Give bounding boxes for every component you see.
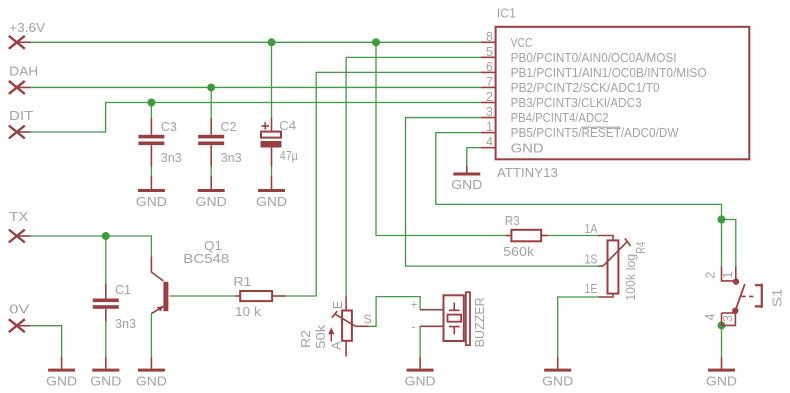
svg-text:GND: GND [256, 195, 287, 209]
svg-text:560k: 560k [503, 245, 535, 259]
svg-text:3n3: 3n3 [115, 317, 136, 331]
svg-text:S: S [364, 312, 372, 326]
svg-text:PB1/PCINT1/AIN1/OC0B/INT0/MISO: PB1/PCINT1/AIN1/OC0B/INT0/MISO [511, 66, 707, 80]
svg-text:GND: GND [405, 375, 436, 389]
svg-text:8: 8 [486, 30, 493, 44]
svg-text:ATTINY13: ATTINY13 [497, 166, 558, 180]
svg-text:PB3/PCINT3/CLKI/ADC3: PB3/PCINT3/CLKI/ADC3 [511, 96, 642, 110]
svg-text:GND: GND [451, 178, 482, 192]
svg-text:C2: C2 [221, 120, 237, 134]
svg-text:4: 4 [486, 135, 493, 149]
svg-text:3n3: 3n3 [221, 151, 242, 165]
svg-text:3: 3 [486, 105, 493, 119]
svg-text:GND: GND [90, 375, 121, 389]
svg-text:DAH: DAH [9, 65, 38, 79]
svg-text:BC548: BC548 [183, 252, 229, 266]
svg-text:3n3: 3n3 [161, 151, 182, 165]
svg-text:IC1: IC1 [497, 6, 516, 20]
svg-text:+: + [411, 298, 418, 312]
svg-text:6: 6 [486, 60, 493, 74]
svg-text:2: 2 [704, 272, 718, 279]
svg-text:0V: 0V [9, 303, 30, 317]
svg-text:GND: GND [706, 375, 737, 389]
svg-text:R4: R4 [634, 242, 648, 254]
svg-text:1: 1 [721, 272, 735, 279]
svg-text:A: A [330, 341, 344, 350]
svg-text:+3.6V: +3.6V [9, 21, 46, 35]
svg-text:C1: C1 [115, 283, 131, 297]
svg-text:VCC: VCC [511, 36, 533, 50]
svg-text:R3: R3 [505, 214, 520, 228]
svg-text:1E: 1E [585, 282, 598, 296]
svg-text:TX: TX [9, 210, 29, 224]
svg-text:E: E [331, 301, 345, 309]
svg-text:GND: GND [136, 375, 167, 389]
svg-text:1: 1 [486, 120, 493, 134]
svg-text:DIT: DIT [9, 109, 33, 123]
svg-text:PB4/PCINT4/ADC2: PB4/PCINT4/ADC2 [511, 111, 609, 125]
svg-text:2: 2 [486, 90, 493, 104]
svg-text:GND: GND [511, 141, 544, 155]
svg-text:GND: GND [46, 375, 77, 389]
svg-text:1A: 1A [585, 222, 599, 236]
svg-text:50k: 50k [314, 324, 328, 349]
svg-text:BUZZER: BUZZER [473, 297, 487, 347]
svg-text:PB0/PCINT0/AIN0/OC0A/MOSI: PB0/PCINT0/AIN0/OC0A/MOSI [511, 51, 677, 65]
svg-text:100k log: 100k log [624, 254, 638, 301]
svg-text:GND: GND [196, 195, 227, 209]
svg-text:GND: GND [136, 195, 167, 209]
svg-text:C3: C3 [161, 120, 177, 134]
svg-text:4: 4 [704, 314, 718, 321]
svg-text:-: - [412, 320, 416, 334]
svg-text:5: 5 [486, 45, 493, 59]
svg-text:PB2/PCINT2/SCK/ADC1/T0: PB2/PCINT2/SCK/ADC1/T0 [511, 81, 660, 95]
svg-text:7: 7 [486, 75, 493, 89]
svg-text:GND: GND [542, 375, 573, 389]
svg-text:Q1: Q1 [204, 239, 222, 253]
svg-text:PB5/PCINT5/RESET/ADC0/DW: PB5/PCINT5/RESET/ADC0/DW [511, 126, 679, 140]
svg-text:R2: R2 [299, 330, 313, 348]
svg-text:C4: C4 [279, 119, 296, 133]
svg-text:3: 3 [721, 315, 735, 322]
svg-text:1S: 1S [585, 252, 598, 266]
svg-text:47µ: 47µ [280, 149, 298, 163]
svg-text:10 k: 10 k [235, 305, 262, 319]
svg-text:S1: S1 [771, 288, 785, 307]
svg-text:R1: R1 [233, 275, 251, 289]
